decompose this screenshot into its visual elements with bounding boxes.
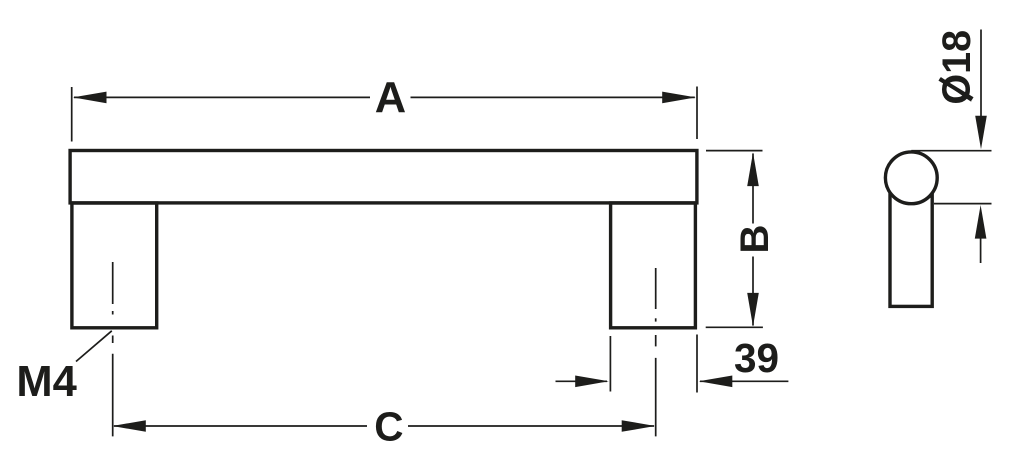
side view post: [890, 180, 932, 306]
dimension A arrowhead left: [73, 92, 107, 104]
dimension B extension line top: [706, 150, 763, 152]
dimension D18 extension line top: [911, 150, 991, 152]
svg-text:Ø18: Ø18: [935, 30, 979, 105]
dimension D18 arrow down: [975, 30, 987, 150]
right leg: [611, 203, 696, 328]
dimension B line: [752, 154, 754, 326]
dimension B extension line bottom: [706, 326, 763, 328]
dimension C line: [114, 425, 654, 427]
svg-text:M4: M4: [16, 358, 76, 406]
dimension C arrowhead left: [112, 420, 146, 432]
dimension A extension line right: [696, 87, 698, 140]
dimension 39 arrow right: [699, 376, 789, 388]
dimension A line: [74, 96, 695, 98]
left leg centerline: [112, 262, 114, 436]
dimension C arrowhead right: [622, 420, 656, 432]
M4 leader line: [76, 331, 112, 362]
svg-text:39: 39: [734, 335, 779, 381]
right leg centerline: [655, 268, 657, 436]
svg-text:B: B: [733, 225, 777, 254]
dimension B arrowhead down: [747, 293, 759, 327]
svg-text:C: C: [374, 403, 403, 449]
dimension D18 extension line bottom: [934, 203, 992, 205]
dimension 39 extension line right: [696, 335, 698, 393]
svg-text:A: A: [375, 74, 406, 122]
label D18: [935, 30, 979, 105]
dimension 39 arrow left: [556, 376, 609, 388]
side view bar end circle: [885, 152, 937, 204]
dimension A extension line left: [71, 87, 73, 142]
dimension B arrowhead up: [747, 153, 759, 187]
dimension A arrowhead right: [662, 92, 696, 104]
dimension D18 arrow up: [975, 205, 987, 263]
left leg: [72, 203, 157, 328]
handle bar (front view): [70, 151, 697, 203]
dimension 39 extension line left: [609, 336, 611, 392]
